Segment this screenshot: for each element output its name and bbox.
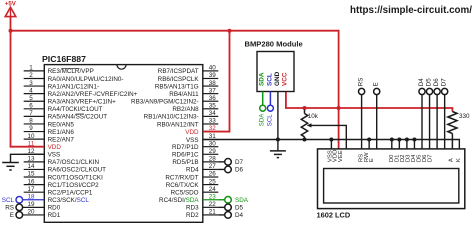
svg-text:9: 9 xyxy=(29,125,33,132)
svg-text:14: 14 xyxy=(27,163,35,170)
pin 38 stub xyxy=(203,80,219,87)
LCD 1602 screen xyxy=(324,169,459,204)
svg-text:https://simple-circuit.com/: https://simple-circuit.com/ xyxy=(350,5,472,16)
svg-text:36: 36 xyxy=(209,95,217,102)
svg-text:10: 10 xyxy=(27,133,35,140)
svg-text:D7: D7 xyxy=(235,159,244,166)
wire +5V branch to pin 32 VDD xyxy=(203,31,230,132)
svg-text:RC7/RX/DT: RC7/RX/DT xyxy=(165,174,198,181)
svg-text:RS: RS xyxy=(5,205,14,212)
svg-text:3: 3 xyxy=(29,80,33,87)
svg-text:RA6/OSC2/CLKOUT: RA6/OSC2/CLKOUT xyxy=(48,167,107,174)
pin 23 stub xyxy=(203,193,219,200)
svg-text:RB1/AN10/C12IN3-: RB1/AN10/C12IN3- xyxy=(144,114,199,121)
svg-text:SCL: SCL xyxy=(266,114,273,126)
svg-text:15: 15 xyxy=(27,171,35,178)
pin 15 stub xyxy=(24,171,45,178)
pin 22 stub xyxy=(203,201,219,208)
svg-text:5: 5 xyxy=(29,95,33,102)
pin 24 stub xyxy=(203,186,219,193)
terminal SDA (BMP280) xyxy=(260,105,266,111)
pin 12 stub xyxy=(24,148,45,155)
pin 40 stub xyxy=(203,65,219,72)
IC U1 PIC16F887 body xyxy=(44,65,203,223)
pin 20 stub xyxy=(23,209,45,216)
svg-text:D6: D6 xyxy=(235,167,244,174)
pin 18 stub xyxy=(23,193,45,200)
pin 36 stub xyxy=(203,95,219,102)
svg-text:VCC: VCC xyxy=(282,72,289,86)
terminal E (left MCU side) xyxy=(16,212,23,219)
svg-text:PIC16F887: PIC16F887 xyxy=(42,54,86,64)
pin 32 stub xyxy=(203,125,219,132)
svg-text:1602 LCD: 1602 LCD xyxy=(317,210,351,219)
svg-text:BMP280 Module: BMP280 Module xyxy=(244,39,302,48)
svg-text:D7: D7 xyxy=(427,155,433,163)
pin 33 stub xyxy=(203,118,219,125)
svg-text:RB5/AN13/T1G: RB5/AN13/T1G xyxy=(155,83,199,90)
junction D0 on rail xyxy=(390,138,394,142)
pin 9 stub xyxy=(24,125,45,132)
svg-text:10k: 10k xyxy=(308,113,319,120)
svg-text:6: 6 xyxy=(29,103,33,110)
terminal RS (left MCU side) xyxy=(16,204,23,211)
svg-text:RA5/AN4/SS/C2OUT: RA5/AN4/SS/C2OUT xyxy=(48,114,108,121)
svg-text:RB7/ICSPDAT: RB7/ICSPDAT xyxy=(158,68,199,75)
svg-text:RA3/AN3/VREF+/C1IN+: RA3/AN3/VREF+/C1IN+ xyxy=(48,99,117,106)
svg-text:RC6/TX/CK: RC6/TX/CK xyxy=(166,182,200,189)
wire +5V top rail xyxy=(11,31,339,149)
junction D1 on rail xyxy=(397,138,401,142)
wire terminal D7 to LCD xyxy=(444,95,446,149)
junction +5V node xyxy=(9,29,13,33)
pin 35 stub xyxy=(203,103,219,110)
svg-text:D5: D5 xyxy=(235,205,244,212)
svg-text:1: 1 xyxy=(29,65,33,72)
svg-text:4: 4 xyxy=(29,87,33,94)
terminal SCL (left MCU side) xyxy=(16,196,23,203)
pin 28 stub xyxy=(203,156,219,163)
svg-text:RC4/SDI/SDA: RC4/SDI/SDA xyxy=(159,197,199,204)
svg-text:E: E xyxy=(10,212,14,219)
pin 14 stub xyxy=(24,163,45,170)
pin 10 stub xyxy=(24,133,45,140)
junction D3 on rail xyxy=(412,138,416,142)
pin 7 stub xyxy=(24,110,45,117)
pin 6 stub xyxy=(24,103,45,110)
svg-text:28: 28 xyxy=(209,156,217,163)
wire +5V to pin 11 VDD xyxy=(11,31,45,147)
junction 10k bottom on rail xyxy=(303,138,307,142)
wire terminal D6 to LCD xyxy=(436,95,438,149)
svg-text:RC1/T1OSI/CCP2: RC1/T1OSI/CCP2 xyxy=(48,182,100,189)
pin 2 stub xyxy=(24,72,45,79)
pin 5 stub xyxy=(24,95,45,102)
svg-text:RD4: RD4 xyxy=(186,167,199,174)
svg-text:20: 20 xyxy=(27,209,35,216)
pin 19 stub xyxy=(23,201,45,208)
svg-text:D5: D5 xyxy=(426,78,433,86)
svg-text:21: 21 xyxy=(209,209,217,216)
junction pin32 VDD branch xyxy=(228,29,232,33)
svg-text:K: K xyxy=(456,158,462,162)
terminal D4 (LCD side) xyxy=(419,88,425,94)
terminal D6 (MCU side) xyxy=(225,166,232,173)
svg-text:RB3/AN9/PGM/C12IN2-: RB3/AN9/PGM/C12IN2- xyxy=(131,99,199,106)
svg-text:RD5/P1B: RD5/P1B xyxy=(172,159,198,166)
svg-text:RC3/SCK/SCL: RC3/SCK/SCL xyxy=(48,197,90,204)
wire pin terminal D7 xyxy=(218,161,224,163)
terminal D7 (LCD side) xyxy=(442,88,448,94)
svg-text:RA0/AN0/ULPWU/C12IN0-: RA0/AN0/ULPWU/C12IN0- xyxy=(48,76,124,83)
resistor R1 330 xyxy=(448,112,457,149)
svg-text:RE1/AN6: RE1/AN6 xyxy=(48,129,75,136)
svg-text:D6: D6 xyxy=(433,78,440,86)
junction RW on rail xyxy=(367,138,371,142)
terminal D4 (MCU side) xyxy=(225,212,232,219)
terminal E (LCD side) xyxy=(374,88,380,94)
terminal D6 (LCD side) xyxy=(434,88,440,94)
svg-text:D4: D4 xyxy=(235,212,244,219)
potentiometer RV1 10k xyxy=(301,110,307,140)
junction BMP280 GND on rail xyxy=(276,138,280,142)
junction D2 on rail xyxy=(405,138,409,142)
svg-text:VSS: VSS xyxy=(186,137,199,144)
svg-text:39: 39 xyxy=(209,72,217,79)
svg-text:35: 35 xyxy=(209,103,217,110)
svg-text:RC0/T1OSO/T1CKI: RC0/T1OSO/T1CKI xyxy=(48,174,104,181)
svg-text:RD1: RD1 xyxy=(48,212,61,219)
svg-text:RB0/AN12/INT: RB0/AN12/INT xyxy=(157,121,199,128)
svg-text:2: 2 xyxy=(29,72,33,79)
wire BMP280 SCL to terminal xyxy=(269,92,271,106)
terminal SDA (MCU side) xyxy=(225,196,232,203)
svg-text:RC5/SDO: RC5/SDO xyxy=(171,189,199,196)
svg-text:E: E xyxy=(369,158,375,162)
svg-text:40: 40 xyxy=(209,65,217,72)
wire LCD D2 to ground rail xyxy=(406,140,408,149)
svg-text:22: 22 xyxy=(209,201,217,208)
wire BMP280 SDA to terminal xyxy=(262,92,264,106)
svg-text:VDD: VDD xyxy=(185,129,199,136)
svg-text:13: 13 xyxy=(27,156,35,163)
svg-text:RC2/P1A/CCP1: RC2/P1A/CCP1 xyxy=(48,189,93,196)
svg-text:37: 37 xyxy=(209,87,217,94)
svg-text:RD7/P1D: RD7/P1D xyxy=(172,144,199,151)
svg-text:23: 23 xyxy=(209,193,217,200)
svg-text:38: 38 xyxy=(209,80,217,87)
svg-text:SCL: SCL xyxy=(266,73,273,86)
pin 13 stub xyxy=(24,156,45,163)
svg-text:7: 7 xyxy=(29,110,33,117)
svg-text:RD3: RD3 xyxy=(186,205,199,212)
svg-text:RE0/AN5: RE0/AN5 xyxy=(48,121,75,128)
svg-text:SDA: SDA xyxy=(259,72,266,86)
svg-text:SDA: SDA xyxy=(235,197,249,204)
svg-text:27: 27 xyxy=(209,163,217,170)
svg-text:30: 30 xyxy=(209,140,217,147)
svg-text:GND: GND xyxy=(274,71,281,86)
pin 29 stub xyxy=(203,148,219,155)
wire terminal D4 to LCD xyxy=(421,95,423,149)
svg-text:RA1/AN1/C12IN1-: RA1/AN1/C12IN1- xyxy=(48,83,99,90)
pin 39 stub xyxy=(203,72,219,79)
pin 31 stub xyxy=(203,133,219,140)
LCD 1602 outer box xyxy=(318,149,465,209)
terminal D7 (MCU side) xyxy=(225,159,232,166)
svg-text:SCL: SCL xyxy=(2,197,15,204)
wire LCD D0 to ground rail xyxy=(391,140,393,149)
svg-text:19: 19 xyxy=(27,201,35,208)
svg-text:RA7/OSC1/CLKIN: RA7/OSC1/CLKIN xyxy=(48,159,100,166)
power +5V symbol xyxy=(5,1,16,16)
pin 17 stub xyxy=(24,186,45,193)
svg-text:17: 17 xyxy=(27,186,35,193)
wire BMP280 GND down to rail xyxy=(277,92,279,140)
pin 1 stub xyxy=(24,65,45,72)
wire LCD D3 to ground rail xyxy=(413,140,415,149)
svg-text:A: A xyxy=(449,158,455,162)
terminal RS (LCD side) xyxy=(359,88,365,94)
pin 16 stub xyxy=(24,178,45,185)
wire pin terminal SDA xyxy=(218,199,224,201)
pin 21 stub xyxy=(203,209,219,216)
pin 26 stub xyxy=(203,171,219,178)
pin 4 stub xyxy=(24,87,45,94)
svg-text:E: E xyxy=(373,82,380,86)
svg-text:24: 24 xyxy=(209,186,217,193)
svg-text:RE3/MCLR/VPP: RE3/MCLR/VPP xyxy=(48,68,94,75)
wire terminal E to LCD xyxy=(376,95,378,149)
pin 11 stub xyxy=(24,140,45,147)
svg-text:25: 25 xyxy=(209,178,217,185)
pin 27 stub xyxy=(203,163,219,170)
junction VSS on rail xyxy=(329,138,333,142)
pin 34 stub xyxy=(203,110,219,117)
wire terminal RS to LCD xyxy=(361,95,363,149)
svg-text:26: 26 xyxy=(209,171,217,178)
svg-text:RD6/P1C: RD6/P1C xyxy=(172,152,199,159)
svg-text:RB2/AN8: RB2/AN8 xyxy=(172,106,199,113)
wire VCC rail (BMP280 VCC to LCD VDD / resistors) xyxy=(286,92,453,112)
module BMP280 box xyxy=(257,52,294,92)
svg-text:33: 33 xyxy=(209,118,217,125)
svg-text:D4: D4 xyxy=(418,78,425,86)
wire LCD RW to ground rail xyxy=(368,140,370,149)
junction VCC rail / LCD VDD xyxy=(337,106,341,110)
wire pin terminal D5 xyxy=(218,206,224,208)
svg-text:34: 34 xyxy=(209,110,217,117)
wire LCD VSS to ground rail xyxy=(330,140,332,149)
svg-text:RS: RS xyxy=(358,78,365,86)
pin 37 stub xyxy=(203,87,219,94)
svg-text:330: 330 xyxy=(459,113,470,120)
wire VSS ground rail xyxy=(203,140,460,149)
svg-text:RD2: RD2 xyxy=(186,212,199,219)
svg-text:VDD: VDD xyxy=(48,144,62,151)
wire 10k wiper to LCD VEE xyxy=(310,125,346,148)
svg-text:SDA: SDA xyxy=(259,113,266,126)
terminal D5 (MCU side) xyxy=(225,204,232,211)
terminal SCL (BMP280) xyxy=(267,105,273,111)
svg-text:16: 16 xyxy=(27,178,35,185)
wire terminal D5 to LCD xyxy=(429,95,431,149)
wire LCD D1 to ground rail xyxy=(398,140,400,149)
pin 8 stub xyxy=(24,118,45,125)
ground (right) xyxy=(270,140,286,158)
wire pin terminal D4 xyxy=(218,214,224,216)
svg-text:8: 8 xyxy=(29,118,33,125)
svg-text:29: 29 xyxy=(209,148,217,155)
svg-text:18: 18 xyxy=(27,193,35,200)
svg-text:RD0: RD0 xyxy=(48,205,61,212)
svg-text:D7: D7 xyxy=(441,78,448,86)
svg-text:RE2/AN7: RE2/AN7 xyxy=(48,136,75,143)
svg-text:RA4/T0CKI/C1OUT: RA4/T0CKI/C1OUT xyxy=(48,106,103,113)
terminal D5 (LCD side) xyxy=(426,88,432,94)
ground (left) xyxy=(2,163,19,171)
svg-text:VSS: VSS xyxy=(48,152,61,159)
pin 25 stub xyxy=(203,178,219,185)
svg-text:RB4/AN11: RB4/AN11 xyxy=(169,91,199,98)
wire pin terminal D6 xyxy=(218,168,224,170)
junction VCC rail / 10k top xyxy=(303,106,307,110)
wiper arrow xyxy=(307,123,312,127)
wire +5V down from symbol xyxy=(10,17,12,31)
svg-text:RA2/AN2/VREF-/CVREF/C2IN+: RA2/AN2/VREF-/CVREF/C2IN+ xyxy=(48,91,138,98)
pin 30 stub xyxy=(203,140,219,147)
svg-text:VEE: VEE xyxy=(338,150,344,162)
svg-text:RB6/ICSPCLK: RB6/ICSPCLK xyxy=(158,76,200,83)
wire pin 12 VSS to ground xyxy=(11,154,45,162)
pin 3 stub xyxy=(24,80,45,87)
